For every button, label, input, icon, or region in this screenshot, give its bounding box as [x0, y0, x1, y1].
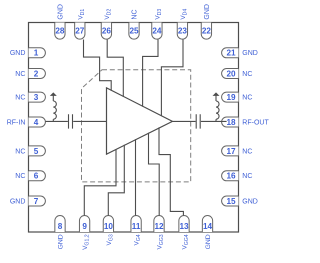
svg-text:2: 2: [34, 69, 39, 78]
pin 14 pad: [202, 216, 212, 232]
svg-text:25: 25: [129, 27, 139, 36]
svg-text:27: 27: [75, 27, 85, 36]
svg-text:NC: NC: [15, 148, 25, 155]
pin 6 pad: [29, 171, 46, 181]
svg-text:28: 28: [55, 27, 65, 36]
svg-text:NC: NC: [15, 173, 25, 180]
pin 2 pad: [29, 69, 46, 79]
package body outline U1: [29, 23, 239, 233]
svg-text:RF-IN: RF-IN: [7, 119, 26, 126]
wire VD1 pin27 to amp: [84, 40, 112, 91]
pin 5 pad: [29, 146, 46, 156]
svg-text:NC: NC: [15, 95, 25, 102]
svg-text:GND: GND: [58, 234, 65, 249]
wire VD4 pin23 to amp: [161, 40, 183, 116]
svg-text:6: 6: [34, 172, 39, 181]
pin 3 pad: [29, 92, 46, 102]
svg-text:7: 7: [34, 197, 39, 206]
svg-text:GND: GND: [10, 198, 26, 205]
pin 26 pad: [101, 23, 111, 40]
pin 13 pad: [179, 216, 189, 232]
svg-text:11: 11: [132, 222, 141, 231]
pin 25 pad: [129, 23, 139, 40]
svg-text:26: 26: [102, 27, 112, 36]
svg-text:5: 5: [34, 147, 39, 156]
pin 15 pad: [222, 196, 239, 206]
wire VG4 pin11 to amp: [135, 139, 137, 215]
pin 4 pad: [29, 117, 46, 127]
pin 28 pad: [55, 23, 65, 40]
pin 7 pad: [29, 196, 46, 206]
svg-text:16: 16: [226, 172, 236, 181]
wire VD2 pin26 to amp: [107, 40, 123, 97]
pin 11 pad: [131, 216, 141, 232]
inductor L2 (output bias choke): [216, 96, 219, 122]
pin 27 pad: [75, 23, 85, 40]
svg-text:10: 10: [104, 222, 114, 231]
wire VG1,2 pin9 to amp: [84, 149, 116, 215]
op-amp amplifier A1: [107, 88, 173, 154]
svg-text:RF-OUT: RF-OUT: [242, 119, 269, 126]
svg-text:17: 17: [226, 147, 236, 156]
svg-text:GND: GND: [205, 234, 212, 249]
wire VGG4 pin13 to amp: [159, 127, 183, 215]
svg-text:NC: NC: [242, 95, 252, 102]
wire amplifier output to C2: [173, 120, 196, 122]
svg-text:19: 19: [226, 93, 236, 102]
svg-text:18: 18: [226, 118, 236, 127]
pin 23 pad: [177, 23, 187, 40]
svg-text:15: 15: [226, 197, 236, 206]
pin 16 pad: [222, 171, 239, 181]
wire VD3 pin24 to amp: [143, 40, 158, 107]
pin 1 pad: [29, 48, 46, 58]
wire RF-IN pin4 to C1: [46, 120, 68, 122]
svg-text:1: 1: [34, 49, 39, 58]
pin 19 pad: [222, 92, 239, 102]
pin 20 pad: [222, 69, 239, 79]
pin 17 pad: [222, 146, 239, 156]
svg-text:9: 9: [82, 222, 87, 231]
svg-text:GND: GND: [58, 4, 65, 20]
pin 10 pad: [103, 216, 113, 232]
svg-text:NC: NC: [132, 9, 139, 19]
svg-text:GND: GND: [10, 50, 26, 57]
pin 18 pad: [222, 117, 239, 127]
wire VG3 pin10 to amp: [108, 145, 124, 216]
capacitor C2: [196, 114, 200, 128]
svg-text:NC: NC: [242, 148, 252, 155]
svg-text:24: 24: [152, 27, 162, 36]
pin 21 pad: [222, 48, 239, 58]
svg-text:23: 23: [178, 27, 188, 36]
wire C1 to amplifier input: [73, 120, 106, 122]
wire C2 to RF-OUT pin18: [201, 120, 227, 122]
pin 9 pad: [79, 216, 89, 232]
svg-text:21: 21: [226, 49, 236, 58]
svg-text:12: 12: [154, 222, 164, 231]
svg-text:8: 8: [58, 222, 63, 231]
svg-text:NC: NC: [242, 71, 252, 78]
pin 8 pad: [55, 216, 65, 232]
svg-text:20: 20: [226, 69, 236, 78]
pin 22 pad: [201, 23, 211, 40]
svg-text:22: 22: [202, 27, 212, 36]
inductor L1 (input bias choke): [53, 96, 56, 122]
svg-text:GND: GND: [242, 50, 258, 57]
svg-text:13: 13: [179, 222, 189, 231]
wire VGG3 pin12 to amp: [149, 133, 160, 216]
dashed bias network boundary: [82, 70, 191, 182]
svg-text:GND: GND: [204, 4, 211, 20]
pin 12 pad: [154, 216, 164, 232]
svg-text:NC: NC: [242, 173, 252, 180]
svg-text:NC: NC: [15, 71, 25, 78]
svg-text:4: 4: [34, 118, 39, 127]
pin 24 pad: [152, 23, 162, 40]
svg-text:3: 3: [34, 93, 39, 102]
capacitor C1: [69, 114, 73, 128]
svg-text:14: 14: [203, 222, 213, 231]
svg-text:GND: GND: [242, 198, 258, 205]
